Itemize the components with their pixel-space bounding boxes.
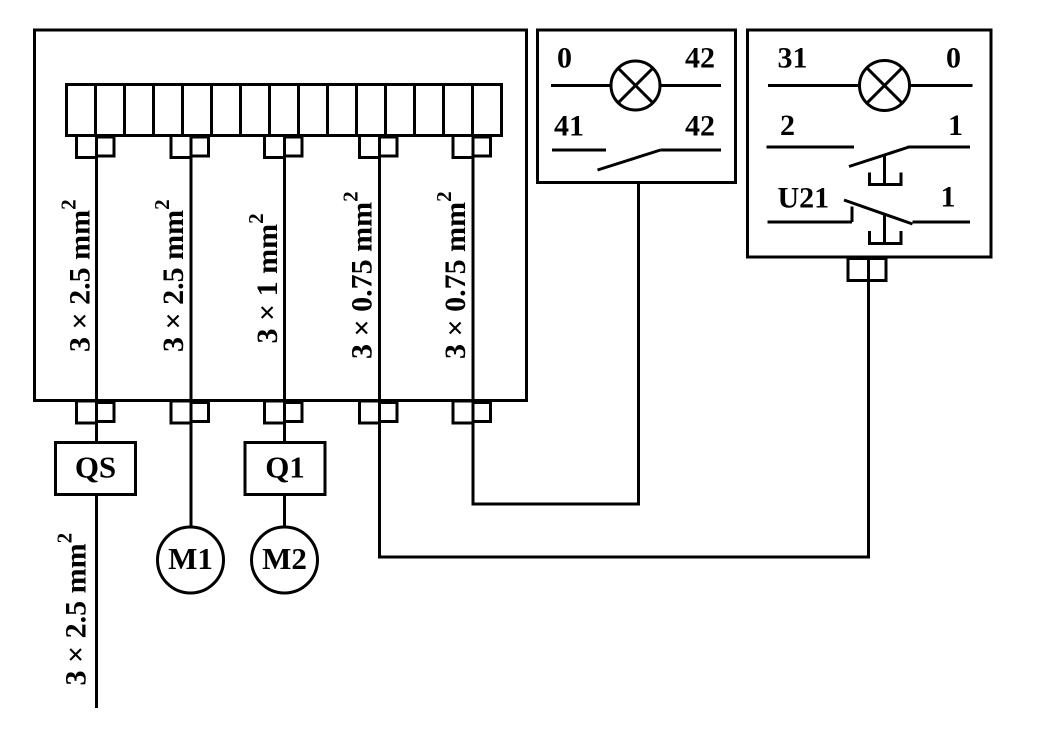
svg-text:U21: U21 (778, 182, 830, 215)
wire W6 QS feed (95, 495, 98, 709)
lamp EL2 (860, 61, 910, 111)
connector pair bottom 4 (360, 401, 398, 423)
wire lamp EL1 left lead (551, 84, 611, 87)
connector pair bottom 5 (453, 401, 491, 423)
svg-text:1: 1 (948, 109, 963, 142)
svg-text:M2: M2 (262, 541, 307, 576)
wire W4 cabinet to door switch box (380, 136, 869, 558)
actuator plunger S2 (870, 155, 902, 185)
svg-text:M1: M1 (168, 541, 213, 576)
connector pair door switch box (848, 259, 886, 281)
svg-text:2: 2 (780, 109, 795, 142)
door switch box enclosure (748, 30, 992, 257)
svg-text:0: 0 (557, 42, 572, 75)
wire W1 cabinet to QS (95, 136, 98, 444)
wire W7 Q1 to M2 (283, 495, 286, 529)
wire W5 cabinet to lamp box (473, 136, 639, 505)
wire lamp EL2 right lead (910, 84, 973, 87)
switch S3 contact U21-1 (768, 200, 971, 224)
connector pair bottom 1 (77, 401, 115, 423)
actuator plunger S3 (870, 214, 902, 244)
connector pair top 4 (360, 136, 398, 158)
lamp box enclosure (538, 30, 736, 183)
svg-text:42: 42 (685, 110, 715, 143)
connector pair top 5 (453, 136, 491, 158)
svg-text:3 × 2.5 mm2: 3 × 2.5 mm2 (53, 533, 93, 686)
connector pair top 2 (171, 136, 209, 158)
wire W3 cabinet to Q1 (283, 136, 286, 444)
svg-text:41: 41 (554, 110, 584, 143)
wire lamp EL1 right lead (660, 84, 721, 87)
switch S2 contact 2-1 (767, 147, 971, 167)
svg-text:42: 42 (685, 42, 715, 75)
svg-text:3 × 2.5 mm2: 3 × 2.5 mm2 (150, 199, 190, 352)
svg-text:3 × 1 mm2: 3 × 1 mm2 (244, 213, 284, 343)
connector pair top 3 (265, 136, 303, 158)
terminal strip X1 (67, 85, 502, 136)
control cabinet box (35, 30, 527, 401)
breaker Q1 (245, 443, 325, 495)
connector pair bottom 3 (265, 401, 303, 423)
svg-text:3 × 0.75 mm2: 3 × 0.75 mm2 (339, 191, 379, 359)
motor M1 (158, 527, 224, 593)
connector pair top 1 (77, 136, 115, 158)
svg-text:Q1: Q1 (265, 450, 305, 485)
svg-text:31: 31 (778, 42, 808, 75)
disconnect switch QS (56, 443, 136, 495)
lamp EL1 (611, 61, 660, 110)
svg-text:1: 1 (941, 181, 956, 214)
connector pair bottom 2 (171, 401, 209, 423)
svg-text:QS: QS (75, 450, 116, 485)
svg-text:3 × 2.5 mm2: 3 × 2.5 mm2 (57, 199, 97, 352)
motor M2 (252, 527, 318, 593)
svg-text:0: 0 (946, 42, 961, 75)
svg-text:3 × 0.75 mm2: 3 × 0.75 mm2 (432, 191, 472, 359)
wire W2 cabinet to M1 (190, 136, 193, 529)
wire lamp EL2 left lead (768, 84, 860, 87)
switch S1 contact 41-42 (552, 150, 721, 170)
